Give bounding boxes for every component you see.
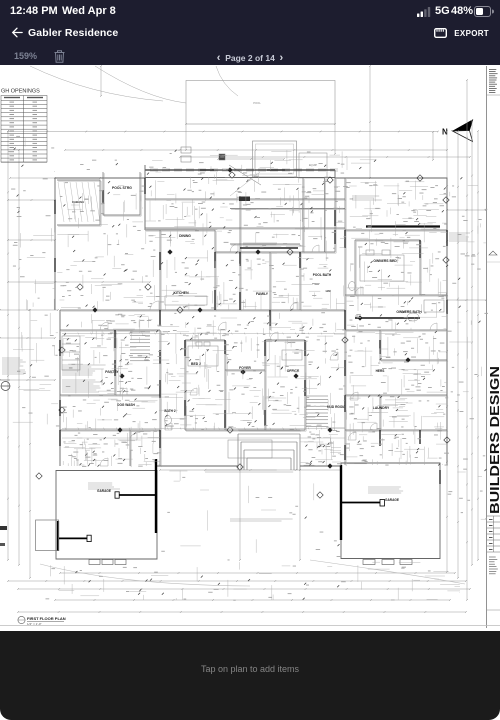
svg-text:OFFICE: OFFICE bbox=[287, 369, 300, 373]
svg-text:GARAGE: GARAGE bbox=[97, 489, 111, 493]
stair left bbox=[130, 332, 150, 361]
spa rectangle bbox=[253, 141, 297, 177]
dimension chains bbox=[62, 333, 345, 438]
svg-text:FAMILY: FAMILY bbox=[256, 292, 269, 296]
export icon bbox=[434, 28, 447, 38]
north arrow bbox=[442, 120, 473, 142]
interior walls bbox=[57, 172, 447, 466]
svg-text:HERS: HERS bbox=[376, 369, 385, 373]
back arrow bbox=[11, 27, 23, 38]
svg-text:BATH 2: BATH 2 bbox=[164, 409, 176, 413]
extra black wall chunks bbox=[60, 230, 420, 460]
status + nav + toolbar dark header bbox=[0, 0, 500, 65]
stair right bbox=[306, 396, 328, 427]
garage doors bbox=[89, 560, 412, 565]
equipment rectangle bbox=[299, 153, 327, 178]
svg-text:BED 2: BED 2 bbox=[191, 362, 201, 366]
svg-text:OWNERS BATH: OWNERS BATH bbox=[396, 310, 422, 314]
svg-text:FIRST FLOOR PLAN: FIRST FLOOR PLAN bbox=[27, 616, 66, 621]
porch steps bbox=[238, 434, 300, 470]
svg-text:MUD ROOM: MUD ROOM bbox=[327, 405, 345, 409]
driveway arcs bbox=[40, 564, 250, 586]
windows bbox=[150, 169, 338, 171]
garage left closet bbox=[36, 520, 59, 551]
battery icon bbox=[474, 6, 494, 17]
furniture and fixtures bbox=[62, 250, 444, 458]
dimension texture bbox=[8, 136, 488, 601]
left margin reference marker bbox=[0, 380, 10, 391]
room labels bbox=[72, 186, 422, 502]
perimeter dimension lines bbox=[0, 66, 486, 612]
svg-text:POOL: POOL bbox=[253, 101, 261, 105]
outdoor kitchen marks bbox=[181, 147, 261, 196]
svg-text:DINING: DINING bbox=[179, 234, 191, 238]
black wall chunks bbox=[55, 170, 447, 484]
pool rectangle bbox=[186, 81, 335, 125]
house exterior walls bbox=[55, 165, 447, 559]
owners bed dark walls bbox=[355, 317, 420, 319]
svg-text:KITCHEN: KITCHEN bbox=[173, 291, 189, 295]
svg-text:POOL STRG: POOL STRG bbox=[112, 186, 132, 190]
white plan sheet bbox=[0, 65, 500, 631]
sheet title block strip bbox=[487, 66, 500, 628]
left margin cut symbols bbox=[0, 526, 7, 530]
svg-text:BUILDERS DESIGN: BUILDERS DESIGN bbox=[487, 366, 500, 514]
trash icon bbox=[54, 50, 65, 63]
svg-text:LAUNDRY: LAUNDRY bbox=[373, 406, 390, 410]
garage right poche walls bbox=[341, 465, 385, 540]
signal bars icon bbox=[417, 7, 431, 17]
svg-text:OWNERS BED: OWNERS BED bbox=[373, 259, 397, 263]
svg-text:FOYER: FOYER bbox=[239, 366, 251, 370]
svg-text:LIN: LIN bbox=[326, 289, 331, 293]
svg-text:DOG WASH: DOG WASH bbox=[117, 403, 135, 407]
house top wall dark bbox=[145, 169, 335, 171]
svg-text:POOL BATH: POOL BATH bbox=[313, 273, 332, 277]
svg-text:GH OPENINGS: GH OPENINGS bbox=[1, 89, 40, 95]
title block lower table bbox=[487, 516, 500, 610]
cabana hatch bbox=[58, 182, 100, 222]
first floor plan label bbox=[18, 616, 66, 626]
garage left poche walls bbox=[58, 459, 156, 551]
bottom action panel bbox=[0, 631, 500, 720]
filled diamond tags bbox=[92, 167, 410, 468]
svg-text:GARAGE: GARAGE bbox=[385, 498, 399, 502]
svg-text:1/4" = 1'-0": 1/4" = 1'-0" bbox=[27, 622, 42, 626]
note text blocks bbox=[2, 196, 470, 521]
window and door tags bbox=[36, 172, 450, 498]
road curves bbox=[30, 66, 163, 101]
sheet bottom border bbox=[0, 625, 500, 627]
svg-text:EQUIP: EQUIP bbox=[309, 163, 317, 167]
door swing arcs bbox=[100, 244, 437, 466]
